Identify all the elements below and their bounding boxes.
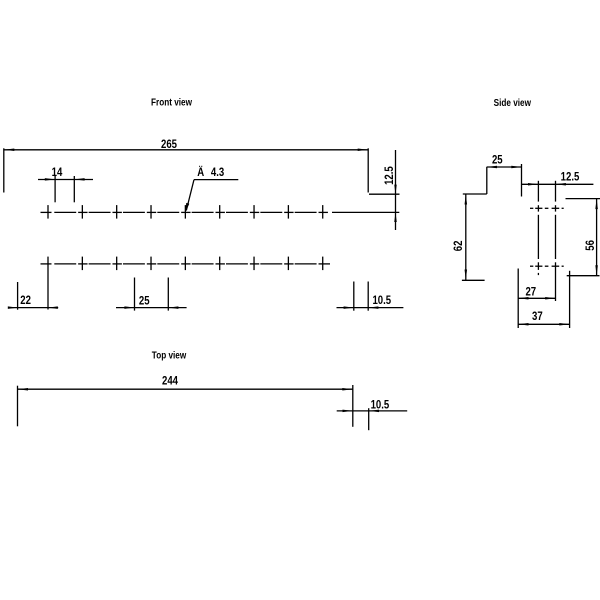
dimension 37: left arrowhead [518,323,528,326]
dimension 244: right arrowhead [342,388,353,391]
dimension 56: dimension line [596,199,598,276]
hole mark row 2 hole 8 [284,263,293,265]
center line dash row 1 segment 2 [89,211,111,213]
dimension 27/37: left extension line [517,269,519,329]
dimension 25 side: dimension line [487,166,522,168]
dimension 265: dimension line [4,149,368,151]
dimension 10.5 top: right extension line [368,408,370,430]
dimension 12.5 front: top extension line [369,193,400,195]
svg-text:14: 14 [52,166,63,179]
dimension 27: right arrowhead [545,297,555,300]
center line dash row 2 segment 5 [192,263,214,265]
dimension 22: dimension line [8,307,58,309]
hole mark row 2 hole 5 [181,263,190,265]
upper horizontal center line (dashed) [530,207,564,209]
pin center line 2 (vertical dash-dot, extended as 27-dim extension) [555,181,557,301]
hole mark row 2 hole 4 [147,263,156,265]
dimension 14: dimension line [38,179,93,181]
dimension 265: right extension line [367,148,369,192]
dimension 37: right extension line [569,271,571,328]
svg-text:25: 25 [492,154,503,167]
dimension 62: bottom arrowhead [465,270,468,281]
leader line for hole diameter 4.3 [194,179,238,181]
hole mark row 2 hole 6 [216,263,225,265]
center line dash row 1 segment 5 [192,211,214,213]
svg-text:4.3: 4.3 [211,166,224,179]
dimension 12.5 front: upper arrowhead [394,185,397,195]
svg-text:22: 22 [20,294,31,307]
center line dash row 2 segment 8 [295,263,317,265]
hole mark row 2 hole 2 [78,263,87,265]
hole center line row 1 [41,205,400,219]
dimension 12.5 front: dimension line [395,150,397,230]
hole mark row 1 hole 2 [78,211,87,213]
center line dash row 1 segment 8 [295,211,317,213]
center line dash row 1 segment 3 [123,211,145,213]
dimension 37: right arrowhead [559,323,569,326]
dimension 37: dimension line [518,323,569,325]
dimension 56: bottom extension line [567,275,600,277]
svg-text:Side view: Side view [494,96,532,108]
side view top-left part edge [463,193,487,195]
center line dash row 2 segment 6 [226,263,248,265]
dimension 56: top extension line [566,198,600,200]
svg-text:10.5: 10.5 [372,294,391,307]
svg-text:56: 56 [584,240,597,251]
hole mark row 1 hole 5 [181,211,190,213]
svg-text:12.5: 12.5 [561,171,580,184]
dimension 10.5 front: left extension line [353,282,355,311]
svg-text:Top view: Top view [152,348,187,360]
dimension 14: right tick extension [73,176,75,202]
dimension 22: right arrowhead [48,306,58,309]
dimension 14: left tick extension [54,176,56,202]
dimension 244: left arrowhead [18,388,29,391]
center line dash row 2 segment 3 [123,263,145,265]
dimension 25 front: right arrowhead [168,306,178,309]
dimension 56: top arrowhead [595,199,598,210]
center line dash row 2 segment 1 [54,263,76,265]
dimension 25 front: left extension line [134,278,136,311]
svg-text:37: 37 [532,310,543,323]
hole mark row 1 hole 9 [319,211,328,213]
hole mark row 2 hole 1 [41,263,52,265]
dimension 244: right extension line [352,385,354,427]
dimension 265: left extension line [3,148,5,192]
svg-text:265: 265 [161,138,177,151]
dimension 265: left arrowhead [4,149,15,152]
center line dash row 1 segment 1 [54,211,76,213]
dimension 12.5 side: right arrowhead [556,183,566,186]
svg-text:27: 27 [525,286,536,299]
hole mark row 1 hole 4 [147,211,156,213]
svg-text:244: 244 [162,374,178,387]
dimension 12.5 side: left arrowhead [528,183,538,186]
hole mark row 1 hole 3 [112,211,121,213]
dimension 244: dimension line [18,388,353,390]
svg-text:Ä: Ä [197,165,204,179]
dimension 10.5 top: left arrowhead [343,410,353,413]
dimension 25 side: left arrowhead [487,166,497,169]
svg-text:25: 25 [139,294,150,307]
dimension 27: dimension line [518,297,555,299]
center line dash row 1 segment 7 [260,211,282,213]
center line dash row 1 segment 4 [157,211,179,213]
lower horizontal center line (dashed) [530,265,564,267]
hole mark row 1 hole 1 [41,211,52,213]
dimension 14: left arrowhead [45,178,55,181]
center line dash row 2 segment 4 [157,263,179,265]
dimension 12.5 front: lower arrowhead [394,212,397,222]
dimension 10.5 front: left arrowhead [344,306,354,309]
hole mark row 2 hole 7 [250,263,259,265]
dimension 22: left arrowhead [8,306,18,309]
hole mark row 1 hole 8 [284,211,293,213]
dimension 10.5 front: right extension line [367,282,369,311]
center line dash row 1 segment 6 [226,211,248,213]
svg-text:62: 62 [452,241,465,252]
dimension 25 side: right extension / part edge [521,164,523,197]
dimension 14: right arrowhead [74,178,84,181]
svg-text:10.5: 10.5 [371,398,390,411]
hole mark row 2 hole 9 [319,263,330,265]
hole mark row 2 hole 3 [112,263,121,265]
dimension 25 front: right extension line [167,278,169,311]
hole mark row 1 hole 7 [250,211,259,213]
center line dash row 2 segment 7 [260,263,282,265]
dimension 22: left extension line [17,282,19,310]
dimension 25 side: left extension / part edge [486,167,488,194]
center line long dash row 1 right [332,211,399,213]
dimension 27: left arrowhead [518,297,528,300]
svg-text:Front view: Front view [151,95,193,107]
hole mark row 1 hole 6 [216,211,225,213]
hole center line row 2 [41,257,331,310]
dimension 62: top arrowhead [465,194,468,205]
dimension 10.5 top: dimension line [337,410,408,412]
dimension 10.5 front: right arrowhead [368,306,378,309]
pin center line 1 (vertical dash-dot) [537,181,539,275]
dimension 10.5 top: right arrowhead [369,410,379,413]
dimension 25 front: dimension line [116,307,187,309]
dimension 25 side: right arrowhead [511,166,521,169]
dimension 25 front: left arrowhead [124,306,134,309]
dimension 62: bottom extension line [462,279,485,281]
center line dash row 2 segment 2 [89,263,111,265]
dimension 10.5 front: dimension line [337,307,404,309]
dimension 56: bottom arrowhead [595,265,598,276]
dimension 62: dimension line [465,194,467,280]
dimension 12.5 side: dimension line [522,183,594,185]
leader arrowhead [186,203,190,212]
dimension 244: left extension line [17,386,19,427]
svg-text:12.5: 12.5 [383,166,396,185]
dimension 265: right arrowhead [358,149,369,152]
